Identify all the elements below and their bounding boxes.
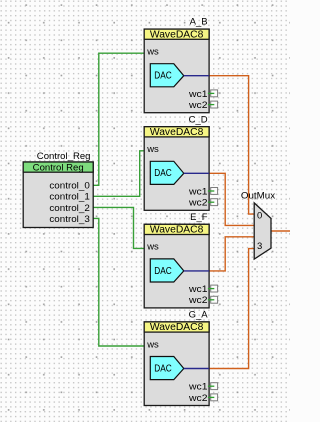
svg-text:E_F: E_F [190, 212, 208, 223]
wire WaveDAC3 out to OutMux in2 [209, 237, 254, 271]
svg-text:G_A: G_A [189, 310, 209, 321]
svg-text:Control Reg: Control Reg [33, 162, 84, 173]
Control_Reg green header [23, 162, 93, 172]
wire WaveDAC4 out to OutMux in3 [209, 249, 254, 369]
WaveDAC8 U2 (C_D) [144, 127, 217, 211]
svg-text:OutMux: OutMux [241, 191, 275, 202]
WaveDAC8 U1 (A_B) [144, 29, 217, 113]
OutMux mux body [254, 203, 271, 259]
svg-text:control_2: control_2 [49, 203, 89, 214]
svg-text:control_0: control_0 [49, 181, 89, 192]
svg-text:C_D: C_D [189, 114, 208, 125]
svg-text:Control_Reg: Control_Reg [37, 151, 91, 162]
svg-text:control_3: control_3 [49, 214, 89, 225]
wire OutMux output [271, 230, 290, 232]
WaveDAC8 U3 (E_F) [144, 224, 217, 308]
wire control_1 to WaveDAC2 ws [93, 151, 144, 197]
Control_Reg body [23, 162, 93, 228]
WaveDAC8 U4 (G_A) [144, 322, 217, 406]
wire WaveDAC1 out to OutMux in0 [209, 76, 254, 214]
svg-text:3: 3 [257, 241, 262, 252]
svg-text:control_1: control_1 [49, 192, 89, 203]
wire WaveDAC2 out to OutMux in1 [209, 173, 254, 225]
wire control_3 to WaveDAC4 ws [93, 218, 144, 346]
wire control_0 to WaveDAC1 ws [93, 53, 144, 185]
svg-text:A_B: A_B [190, 17, 208, 28]
wire control_2 to WaveDAC3 ws [93, 207, 144, 248]
svg-text:0: 0 [257, 210, 262, 221]
